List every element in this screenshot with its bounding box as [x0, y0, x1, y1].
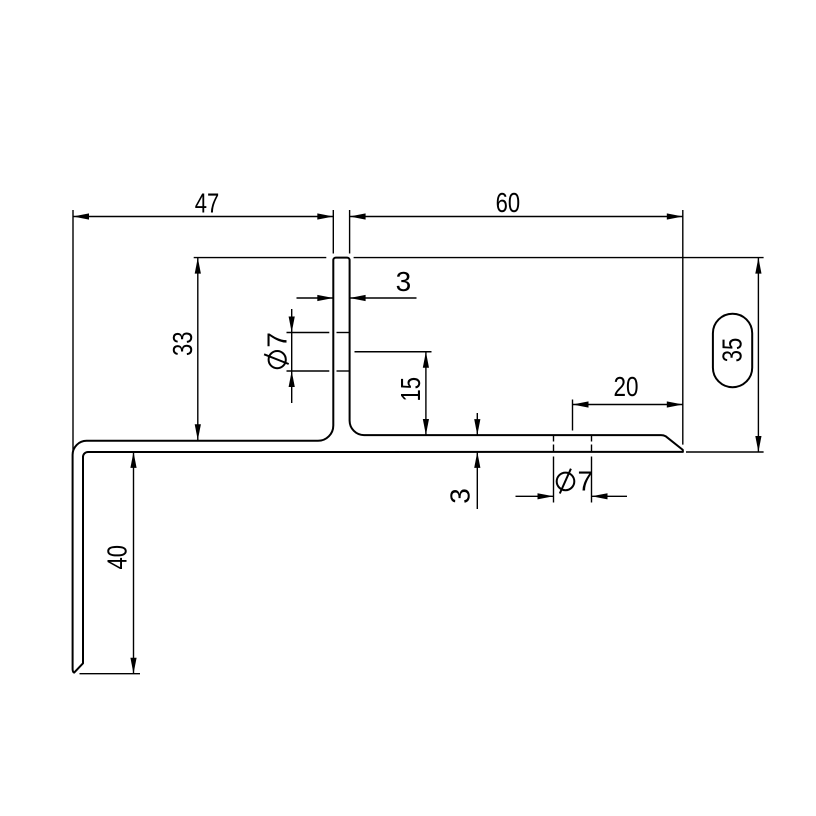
extension line right end for dim 60 [682, 210, 684, 445]
arrow 3 fin right [350, 295, 366, 301]
arrow 3 bar top [474, 419, 480, 435]
arrow 3 fin left [317, 295, 333, 301]
label d7 bar hole [557, 466, 593, 497]
dimension line 15 [425, 352, 427, 435]
arrow 47 left [73, 213, 89, 219]
label 35 (rotated, in slot) [717, 338, 748, 363]
extension line bottom for dim 40 [80, 673, 141, 675]
arrow 60 right [667, 213, 683, 219]
dimension line 20 [573, 404, 683, 406]
svg-text:20: 20 [614, 371, 639, 402]
extension line bottom for dim 35 [686, 451, 764, 453]
label d7 fin (rotated) [262, 332, 293, 368]
arrow 15 bottom [423, 419, 429, 435]
svg-text:3: 3 [396, 266, 412, 297]
svg-text:40: 40 [102, 545, 133, 570]
arrow 33 bottom [195, 424, 201, 440]
extension line fin right for dim 60 [349, 210, 351, 254]
svg-text:35: 35 [717, 338, 748, 363]
svg-text:7: 7 [262, 332, 293, 348]
bar hole right edge dashes [591, 435, 593, 441]
fin hole bottom edge lines [287, 370, 330, 372]
svg-text:60: 60 [496, 187, 521, 218]
dimension line d7 fin hole [291, 309, 293, 403]
fin hole top edge lines [287, 332, 330, 334]
svg-text:7: 7 [578, 466, 594, 497]
dimension line 40 [133, 452, 135, 674]
arrow 35 bottom [755, 436, 761, 452]
arrow 40 bottom [130, 658, 136, 674]
extension line fin left for dim 47 [332, 210, 334, 254]
dimension line 3 fin left part [297, 297, 334, 299]
slot hole 7x14 in right flange [713, 314, 752, 388]
dimension line d7 bar hole left part [516, 495, 554, 497]
extension line hole centre for dim 15 [355, 351, 432, 353]
arrow 15 top [423, 352, 429, 368]
svg-text:3: 3 [445, 488, 476, 504]
extension line top for dim 33 [194, 257, 327, 259]
dimension line 47 [73, 216, 333, 218]
dimension line 3 fin right part [350, 297, 417, 299]
extension line top for dim 35 [354, 257, 764, 259]
label 40 (rotated) [102, 545, 133, 570]
svg-text:15: 15 [395, 377, 426, 402]
svg-text:47: 47 [195, 187, 220, 218]
arrow d7 bar left [538, 493, 554, 499]
dimension line 3 bar bottom part [476, 452, 478, 509]
dimension line 60 [350, 216, 683, 218]
svg-text:33: 33 [167, 332, 198, 357]
arrow d7 bar right [592, 493, 608, 499]
dimension line 35 [757, 258, 759, 452]
arrow 3 bar bottom [474, 452, 480, 468]
label 3 bar (rotated) [445, 488, 476, 504]
arrow 33 top [195, 258, 201, 274]
label 33 (rotated) [167, 332, 198, 357]
arrow 20 right [667, 401, 683, 407]
arrow d7 fin top [289, 317, 295, 333]
arrow 35 top [755, 258, 761, 274]
arrow 60 left [350, 213, 366, 219]
profile outline (Z/T sheet-metal cross-section) [73, 258, 683, 673]
extension line left (leg outer) for dim 47 [72, 210, 74, 452]
label 15 (rotated) [395, 377, 426, 402]
dimension line 3 bar top part [476, 413, 478, 435]
arrow d7 fin bottom [289, 371, 295, 387]
arrow 40 top [130, 452, 136, 468]
arrow 47 right [317, 213, 333, 219]
dimension line d7 bar hole right part [592, 495, 628, 497]
arrow 20 left [573, 401, 589, 407]
extension line hole centre for dim 20 [572, 400, 574, 431]
bar hole left edge dashes [553, 435, 555, 441]
dimension line 33 [197, 258, 199, 441]
